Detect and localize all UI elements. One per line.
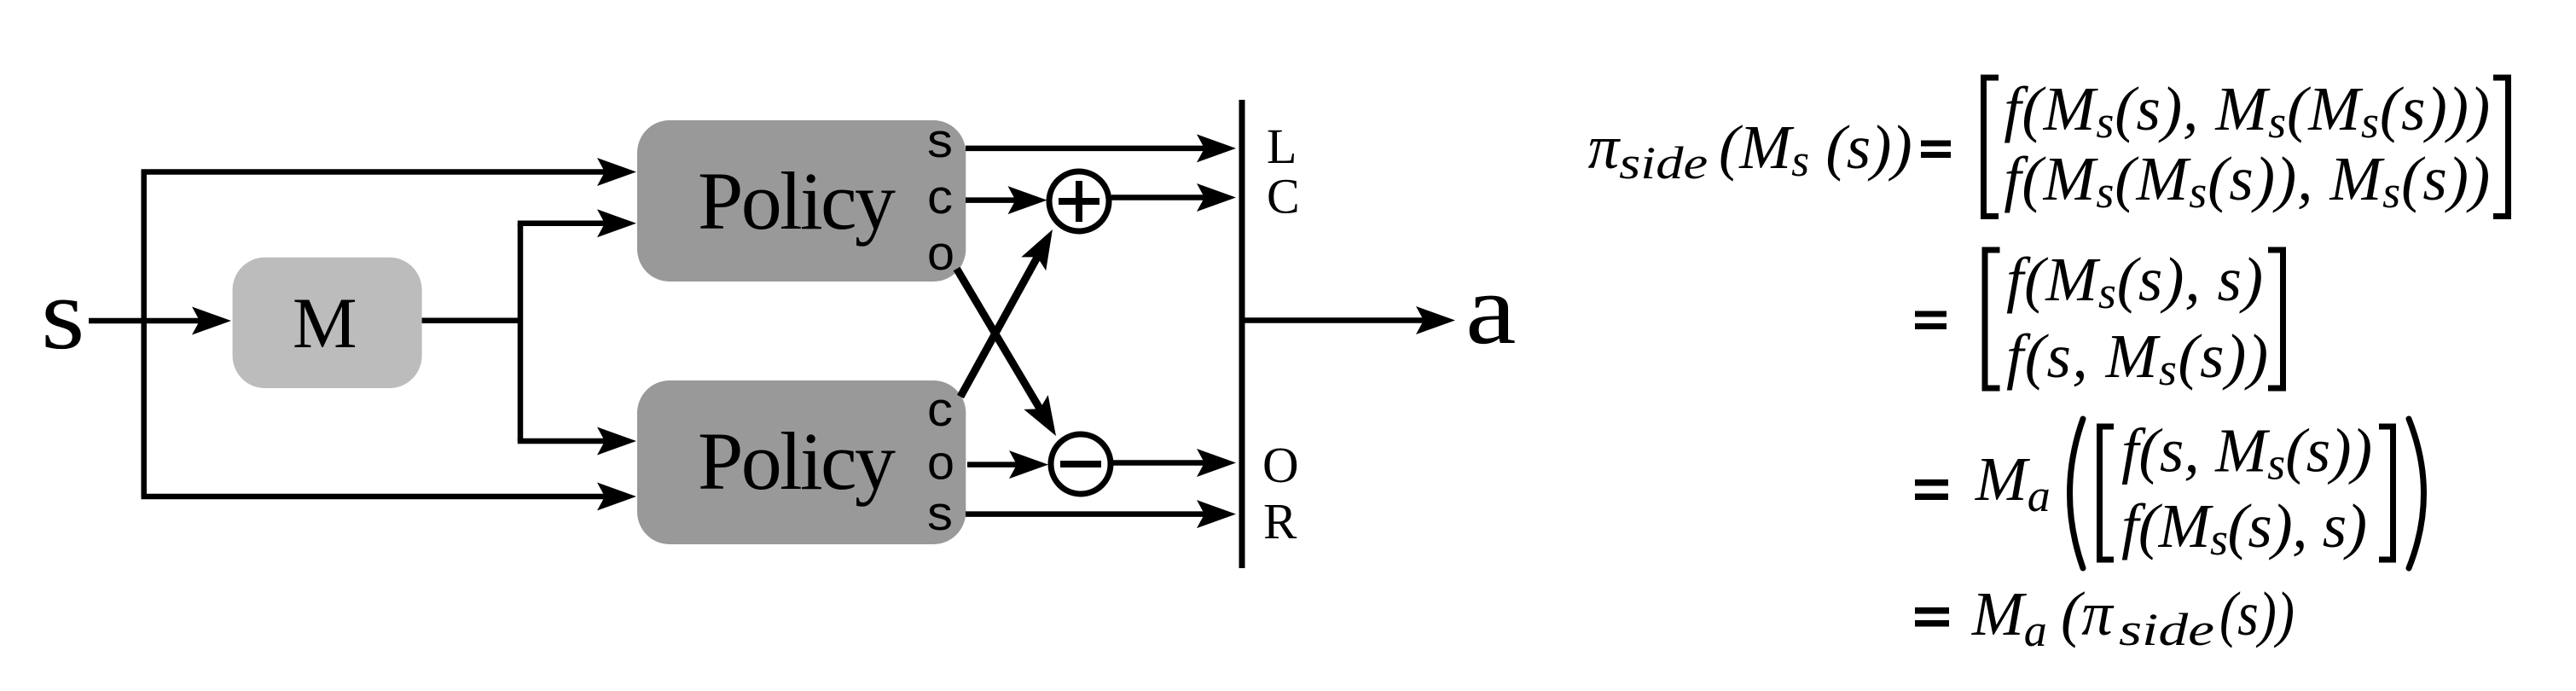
wire bottom policy s to R (966, 511, 1204, 517)
box Policy bottom (637, 380, 966, 544)
wire top policy c to plus (966, 197, 1016, 203)
concat bar (1239, 100, 1245, 568)
svg-text:o: o (927, 226, 954, 281)
matrix 2 left bracket (1985, 250, 2000, 388)
wire bottom policy o to minus (967, 462, 1017, 467)
equation line 4 equals (1915, 607, 1949, 627)
wire s branch bottom horizontal to bottom Policy (142, 494, 606, 500)
svg-text:s: s (927, 113, 953, 168)
svg-text:Policy: Policy (698, 155, 896, 247)
matrix 1 left bracket (1984, 78, 1999, 217)
matrix 3 left bracket (2100, 427, 2115, 560)
svg-text:s: s (41, 257, 85, 370)
wire top policy s to L (966, 146, 1204, 152)
wire M output (422, 317, 520, 323)
svg-text:O: O (1262, 437, 1299, 493)
wire s branch top horizontal to top Policy (142, 169, 606, 175)
box Policy top (637, 120, 966, 282)
svg-text:C: C (1267, 169, 1300, 224)
equation line 3 big left paren (2070, 419, 2084, 568)
svg-text:f(Ms(Ms(s)), Ms(s)): f(Ms(Ms(s)), Ms(s)) (2004, 144, 2490, 218)
wire M branch to top Policy (518, 221, 605, 227)
equation line 3 equals (1915, 479, 1948, 500)
diagonal wire bottom policy c to plus (960, 257, 1037, 397)
svg-text:o: o (927, 436, 954, 491)
svg-text:M: M (293, 283, 357, 363)
matrix 3 right bracket (2379, 427, 2393, 560)
equation line 2 equals (1915, 311, 1947, 330)
diagonal wire top policy o to minus (957, 269, 1041, 409)
svg-text:L: L (1267, 119, 1297, 174)
box M (model) (233, 258, 422, 388)
wire plus to C (1111, 195, 1204, 200)
wire s branch vertical (141, 172, 147, 497)
svg-text:f(Ms(s), Ms(Ms(s))): f(Ms(s), Ms(Ms(s))) (2004, 74, 2490, 148)
plus junction circle (1049, 171, 1109, 231)
wire M branch to bottom Policy (518, 438, 605, 444)
matrix 1 right bracket (2493, 78, 2509, 217)
svg-text:c: c (927, 382, 953, 437)
svg-text:f(Ms(s), s): f(Ms(s), s) (2121, 491, 2367, 565)
wire M branch vertical (518, 224, 524, 441)
svg-text:s: s (927, 486, 953, 541)
equation line 3 big right paren (2409, 419, 2424, 568)
svg-text:f(s, Ms(s)): f(s, Ms(s)) (2121, 416, 2372, 490)
equation line 1 equals (1921, 141, 1951, 159)
svg-text:a: a (1465, 253, 1517, 365)
svg-text:f(Ms(s), s): f(Ms(s), s) (2006, 245, 2263, 318)
svg-text:Policy: Policy (698, 415, 896, 507)
minus junction circle (1051, 434, 1111, 494)
wire minus to O (1113, 460, 1204, 466)
wire s to M with arrowhead (89, 318, 200, 324)
svg-text:c: c (927, 170, 953, 224)
svg-text:R: R (1263, 493, 1297, 549)
matrix 2 right bracket (2268, 250, 2283, 388)
wire bar to a (1242, 317, 1424, 323)
